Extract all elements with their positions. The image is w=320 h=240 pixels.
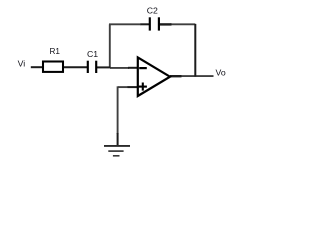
svg-text:Vo: Vo — [216, 67, 226, 77]
svg-text:R1: R1 — [50, 47, 61, 56]
svg-text:Vi: Vi — [18, 59, 26, 69]
svg-text:C2: C2 — [147, 5, 158, 15]
svg-text:C1: C1 — [87, 49, 98, 59]
